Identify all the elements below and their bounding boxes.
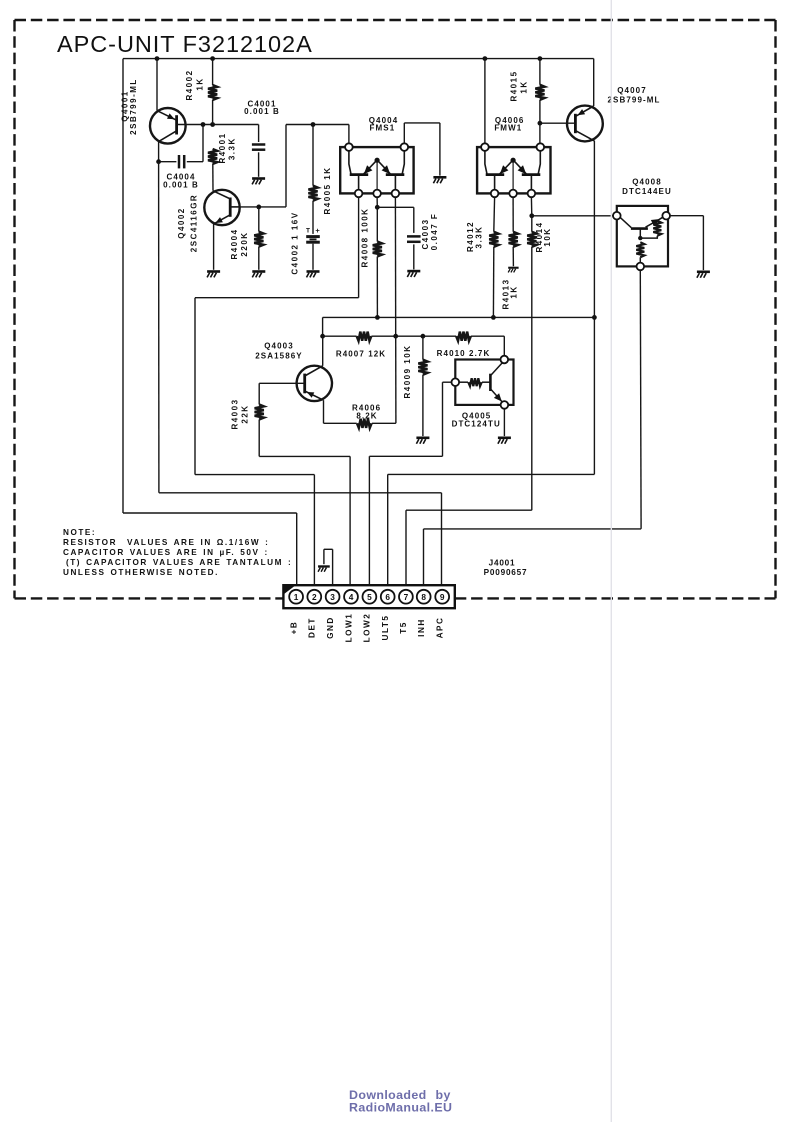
- svg-text:10K: 10K: [543, 227, 552, 246]
- wire R4006 riser to line B: [395, 336, 397, 423]
- pin top-right FMW1: [537, 143, 545, 151]
- dual transistor right base-emitter bar FMW1: [522, 173, 541, 176]
- wire FMW1 top-left pin riser: [484, 59, 486, 144]
- resistor R4008: [373, 242, 382, 257]
- transistor Q4001 collector lead: [159, 131, 177, 142]
- transistor Q4002 emitter lead: [214, 215, 231, 224]
- wire DET horizontal: [195, 297, 359, 299]
- transistor Q4001 emitter arrow (PNP): [167, 113, 175, 119]
- svg-text:DTC144EU: DTC144EU: [622, 187, 672, 196]
- pin top-left FMW1: [481, 143, 489, 151]
- node R4005 top: [311, 122, 316, 127]
- wire ULT5 vertical: [593, 317, 595, 474]
- wire +B top rail: [123, 58, 594, 60]
- ground Q4002 emitter: [207, 270, 220, 273]
- Q4008 internal R1 top stub: [657, 216, 664, 221]
- wire INH horizontal: [424, 528, 642, 530]
- transistor Q4007 collector lead: [575, 131, 594, 141]
- wire to C4003: [377, 206, 414, 208]
- transistor Q4005 emitter lead: [490, 389, 502, 402]
- wire line B middle: [371, 335, 456, 337]
- svg-text:RESISTOR VALUES ARE IN Ω.1/16: RESISTOR VALUES ARE IN Ω.1/16W :: [63, 538, 269, 547]
- ground Q4005: [498, 437, 511, 440]
- svg-text:7: 7: [404, 592, 409, 602]
- transistor Q4002 circle: [204, 190, 239, 225]
- Q4005 internal input lead: [459, 381, 468, 383]
- svg-text:4: 4: [349, 592, 354, 602]
- connector J4001 box: [283, 585, 454, 608]
- node Q4008 internal: [638, 236, 642, 240]
- dual transistor right base drop FMS1: [394, 175, 396, 190]
- dashed schematic border (left edge): [13, 20, 15, 598]
- dual transistor left emitter arrow FMS1: [364, 165, 373, 174]
- digital transistor Q4008 box: [617, 206, 668, 267]
- wire Q4008 output drop: [639, 270, 642, 529]
- dual transistor Q4006 FMW1 box: [477, 147, 550, 193]
- svg-text:T5: T5: [399, 621, 408, 634]
- wire R4015 bottom: [539, 100, 541, 144]
- transistor Q4008 base bar: [631, 227, 648, 230]
- svg-text:+: +: [315, 226, 320, 235]
- svg-text:FMW1: FMW1: [494, 124, 522, 133]
- wire Q4007 collector drop: [593, 141, 595, 318]
- node collector-R4004: [256, 205, 261, 210]
- pin 6 circle: [381, 590, 395, 604]
- svg-text:1: 1: [294, 592, 299, 602]
- dual transistor apex to middle pin FMW1: [512, 160, 514, 189]
- wire Q4005 emitter to ground: [503, 409, 505, 436]
- dual transistor right emitter arrow FMW1: [518, 165, 527, 174]
- svg-text:8: 8: [421, 592, 426, 602]
- dual transistor left emitter lead FMS1: [363, 161, 376, 174]
- pin bottom-left FMW1: [491, 190, 499, 198]
- svg-text:0.001 B: 0.001 B: [244, 107, 280, 116]
- pin Q4005 bottom-right: [501, 401, 509, 409]
- wire R4003 top: [258, 383, 260, 404]
- svg-text:2SC4116GR: 2SC4116GR: [189, 194, 198, 252]
- svg-text:3: 3: [330, 592, 335, 602]
- transistor Q4007 emitter lead: [575, 106, 593, 116]
- wire C4003 top lead: [413, 207, 415, 233]
- svg-text:C4003: C4003: [421, 218, 430, 249]
- pin 4 circle: [344, 590, 358, 604]
- resistor R4015: [535, 85, 544, 100]
- dashed schematic border (bottom edge, interrupted by connector): [15, 597, 284, 599]
- svg-text:R4015: R4015: [510, 70, 519, 101]
- svg-text:2SA1586Y: 2SA1586Y: [255, 352, 303, 361]
- svg-text:2SB799-ML: 2SB799-ML: [607, 96, 660, 105]
- wire Q4008 input line: [532, 215, 613, 217]
- ground R4004: [252, 270, 265, 273]
- wire pin2 riser: [313, 475, 315, 590]
- transistor Q4002 emitter arrow (NPN): [215, 217, 223, 223]
- wire LOW1 horizontal: [259, 455, 350, 457]
- dashed schematic border (right edge): [774, 20, 776, 598]
- wire ULT5 horizontal: [388, 473, 595, 475]
- transistor Q4003 collector lead: [305, 366, 323, 376]
- Q4005 internal base wire: [482, 381, 490, 383]
- svg-text:220K: 220K: [240, 231, 249, 256]
- dual transistor left base-emitter bar FMW1: [486, 173, 505, 176]
- node lineA-Q4007 collector: [592, 315, 597, 320]
- svg-text:R4003: R4003: [231, 398, 240, 429]
- svg-text:DET: DET: [308, 617, 317, 638]
- transistor Q4005 base bar: [489, 374, 492, 391]
- wire line B right: [471, 335, 505, 337]
- wire R4009 bottom: [422, 375, 424, 436]
- svg-text:0.047 F: 0.047 F: [430, 213, 439, 251]
- resistor R4004: [254, 232, 263, 247]
- wire R4006 left: [324, 422, 357, 424]
- Q4008 internal resistor R1: [653, 221, 661, 236]
- transistor Q4005 collector lead: [490, 363, 502, 376]
- svg-text:APC: APC: [436, 617, 445, 639]
- svg-text:Q4007: Q4007: [617, 86, 647, 95]
- resistor R4001: [208, 149, 217, 164]
- wire LOW2 horizontal: [369, 455, 442, 457]
- svg-text:R4007 12K: R4007 12K: [336, 350, 386, 359]
- wire Q4001 base line: [177, 124, 259, 126]
- wire C4004 left lead: [159, 161, 177, 163]
- ground C4003: [407, 270, 420, 273]
- wire Q4007 emitter riser: [593, 59, 595, 106]
- wire R4008 top: [376, 207, 378, 241]
- node lineB start: [320, 334, 325, 339]
- transistor Q4002 base bar: [229, 198, 232, 217]
- svg-text:R4001: R4001: [218, 132, 227, 163]
- wire R4008 bottom: [376, 257, 378, 318]
- transistor Q4002 base lead: [213, 191, 229, 199]
- wire pin5 riser: [368, 456, 370, 589]
- ground R4009: [416, 437, 429, 440]
- svg-text:R4009 10K: R4009 10K: [403, 345, 412, 399]
- pin 1 circle: [289, 590, 303, 604]
- svg-text:UNLESS OTHERWISE NOTED.: UNLESS OTHERWISE NOTED.: [63, 568, 219, 577]
- ground C4002: [307, 270, 320, 273]
- svg-text:LOW1: LOW1: [344, 613, 353, 643]
- wire R4002 top: [212, 59, 214, 85]
- wire R4014 to T5: [531, 247, 533, 510]
- svg-text:1K: 1K: [510, 285, 519, 298]
- capacitor C4004: [178, 155, 181, 168]
- pin 9 circle: [435, 590, 449, 604]
- svg-text:R4008 100K: R4008 100K: [361, 208, 370, 268]
- resistor R4012: [489, 232, 498, 247]
- wire C4003 bottom lead: [413, 244, 415, 269]
- dual transistor left emitter lead FMW1: [499, 161, 512, 174]
- node C4004-collector: [156, 159, 161, 164]
- svg-text:DTC124TU: DTC124TU: [452, 419, 501, 428]
- Q4008 internal wire R1 to node: [640, 236, 657, 238]
- svg-text:+B: +B: [289, 621, 298, 635]
- capacitor C4003: [407, 235, 421, 238]
- Q4008 internal bar drop: [639, 229, 641, 239]
- dual transistor emitter apex node FMS1: [375, 158, 380, 163]
- wire R4005 top: [312, 125, 314, 186]
- pin bottom-right FMW1: [528, 190, 536, 198]
- svg-text:1K: 1K: [520, 80, 529, 93]
- transistor Q4008 emitter arrow: [651, 219, 660, 226]
- wire left +B drop: [122, 59, 124, 513]
- transistor Q4003 emitter lead: [305, 391, 324, 400]
- Q4008 internal resistor R2: [636, 242, 644, 257]
- svg-text:LOW2: LOW2: [363, 613, 372, 643]
- svg-text:APC-UNIT F3212102A: APC-UNIT F3212102A: [57, 31, 313, 57]
- Q4005 internal base resistor: [468, 378, 481, 386]
- wire Q4003 base lead: [259, 382, 305, 384]
- wire R4012 top: [493, 197, 496, 232]
- wire R4002 bottom: [212, 100, 214, 125]
- wire Q4003 emitter drop: [323, 400, 325, 423]
- wire R4006 right: [372, 422, 396, 424]
- transistor Q4001 circle: [150, 108, 186, 144]
- wire APC horizontal: [159, 492, 442, 494]
- wire Q4008 emitter right: [670, 215, 703, 217]
- node base-R4002-R4001: [210, 122, 215, 127]
- svg-text:0.001 B: 0.001 B: [163, 181, 199, 190]
- resistor R4007: [357, 332, 372, 341]
- svg-text:C4002 1 16V: C4002 1 16V: [291, 211, 300, 274]
- wire DET to pin2: [195, 474, 314, 476]
- connector J4001 corner wedge: [283, 585, 295, 594]
- svg-text:Q4003: Q4003: [264, 341, 294, 350]
- svg-text:Q4001: Q4001: [120, 90, 129, 122]
- pin bottom-right FMS1: [392, 190, 400, 198]
- svg-text:9: 9: [440, 592, 445, 602]
- resistor R4006: [357, 419, 372, 428]
- ground FMS1 top-right: [433, 176, 446, 179]
- digital transistor Q4005 box: [455, 360, 513, 405]
- resistor R4010: [456, 332, 471, 341]
- svg-text:3.3K: 3.3K: [475, 226, 484, 249]
- node lineB-R4006: [393, 334, 398, 339]
- pin Q4005 top-right: [501, 356, 509, 364]
- pin 8 circle: [417, 590, 431, 604]
- svg-text:R4010 2.7K: R4010 2.7K: [437, 349, 491, 358]
- transistor Q4001 emitter lead: [157, 111, 175, 120]
- wire R4013 top: [512, 197, 514, 232]
- wire R4015 top: [539, 59, 541, 85]
- wire Q4002 emitter to ground: [213, 224, 215, 270]
- wire FMS1 top-left pin riser: [348, 125, 350, 144]
- wire pin3 jog: [324, 548, 333, 550]
- svg-text:FMS1: FMS1: [370, 124, 396, 133]
- pin Q4008 bottom: [637, 263, 645, 271]
- node rail-R4002: [210, 56, 215, 61]
- pin Q4008 right: [662, 212, 670, 220]
- wire pin1 riser: [296, 513, 298, 590]
- ground pin3 GND: [318, 565, 330, 567]
- pin 5 circle: [363, 590, 377, 604]
- svg-text:2SB799-ML: 2SB799-ML: [129, 78, 138, 135]
- wire C4004 right riser: [202, 125, 204, 162]
- dual transistor right emitter lead FMS1: [378, 161, 391, 174]
- resistor R4003: [255, 405, 264, 420]
- svg-text:GND: GND: [326, 616, 335, 639]
- wire R4004 top: [258, 207, 260, 232]
- wire riser to base net: [285, 125, 287, 207]
- svg-text:8.2K: 8.2K: [356, 412, 377, 421]
- svg-text:INH: INH: [417, 618, 426, 637]
- pin bottom-left FMS1: [355, 190, 363, 198]
- wire DET left drop: [194, 298, 196, 475]
- ground Q4008 emitter: [697, 271, 710, 274]
- svg-text:P0090657: P0090657: [484, 568, 528, 577]
- transistor Q4003 base bar: [303, 374, 306, 394]
- node rail-R4015: [538, 56, 543, 61]
- node lineA-R4008: [375, 315, 380, 320]
- wire C4001 bottom lead: [258, 152, 260, 177]
- svg-text:ULT5: ULT5: [381, 615, 390, 641]
- node lineA-R4012: [491, 315, 496, 320]
- wire FMS1 BL pin drop: [358, 197, 360, 298]
- wire FMS1 topright drop: [439, 123, 441, 176]
- wire line A drop to line B: [322, 317, 324, 336]
- svg-text:RadioManual.EU: RadioManual.EU: [349, 1101, 452, 1115]
- pin Q4008 left: [613, 212, 621, 220]
- pin 3 circle: [326, 590, 340, 604]
- faint scan fold line: [610, 0, 612, 1122]
- capacitor C4002 plates: [306, 235, 320, 238]
- svg-text:2: 2: [312, 592, 317, 602]
- wire line B drop to Q4005: [503, 336, 505, 356]
- resistor R4009: [418, 360, 427, 375]
- wire R4014 top: [530, 197, 532, 216]
- dual transistor right collector lead FMS1: [402, 151, 404, 175]
- svg-text:R4004: R4004: [230, 228, 239, 259]
- node base-C4004: [201, 122, 206, 127]
- transistor Q4003 circle: [297, 366, 332, 401]
- Q4008 internal wire R2 to pin: [639, 257, 641, 262]
- wire R4009 top: [422, 336, 424, 360]
- pin bottom-middle FMW1: [509, 190, 517, 198]
- dual transistor left base-emitter bar FMS1: [350, 173, 369, 176]
- ground R4013: [508, 267, 518, 269]
- wire Q4003 collector riser: [322, 336, 324, 366]
- wire R4005 to C4002: [312, 201, 314, 234]
- transistor Q4007 emitter arrow (PNP): [578, 109, 586, 115]
- dual transistor right emitter lead FMW1: [514, 161, 527, 174]
- ground C4001: [252, 177, 265, 180]
- transistor Q4005 emitter arrow (NPN): [494, 393, 502, 401]
- wire C4004 right lead: [187, 161, 203, 163]
- resistor R4005: [308, 186, 317, 201]
- svg-text:J4001: J4001: [489, 559, 516, 568]
- transistor Q4007 base bar: [574, 114, 577, 133]
- wire Q4001 emitter from rail: [156, 59, 158, 111]
- wire bus line A: [323, 316, 595, 318]
- wire R4003 bottom: [258, 420, 260, 457]
- svg-text:Q4002: Q4002: [177, 207, 186, 239]
- dual transistor right base-emitter bar FMS1: [386, 173, 405, 176]
- dual transistor right collector lead FMW1: [538, 151, 540, 175]
- wire APC vertical from C4004 node: [158, 162, 160, 493]
- wire R4004 bottom: [258, 247, 260, 270]
- transistor Q4003 emitter arrow (PNP): [307, 392, 315, 398]
- wire pin3 riser: [332, 549, 334, 589]
- svg-text:1K: 1K: [196, 77, 205, 90]
- resistor R4014: [527, 232, 536, 247]
- dual transistor right base drop FMW1: [530, 175, 532, 190]
- svg-text:3.3K: 3.3K: [227, 137, 236, 160]
- transistor Q4007 circle: [567, 106, 603, 142]
- dual transistor right emitter arrow FMS1: [382, 165, 391, 174]
- wire FMS1 top-right pin up: [403, 123, 405, 143]
- wire base net to FMS1: [286, 124, 349, 126]
- dual transistor emitter apex node FMW1: [510, 158, 515, 163]
- transistor Q4002 collector lead: [230, 206, 240, 208]
- wire Q4007 base lead: [540, 122, 576, 124]
- node lineB-R4009: [421, 334, 426, 339]
- wire line B left: [323, 335, 357, 337]
- dual transistor left emitter arrow FMW1: [500, 165, 509, 174]
- node R4008-C4003: [375, 205, 380, 210]
- svg-text:R4005 1K: R4005 1K: [323, 166, 332, 214]
- svg-text:(T) CAPACITOR VALUES ARE TANTA: (T) CAPACITOR VALUES ARE TANTALUM :: [66, 558, 292, 567]
- node R4014-Q4008: [529, 213, 534, 218]
- wire FMS1 topright horizontal: [404, 122, 440, 124]
- node rail-Q4001 emitter: [155, 56, 160, 61]
- wire T5 horizontal: [406, 509, 532, 511]
- node rail-FMW1: [483, 56, 488, 61]
- wire FMS1 BR pin drop: [394, 197, 396, 336]
- dual transistor left collector lead FMW1: [485, 151, 487, 175]
- wire C4001 top lead: [258, 125, 260, 143]
- transistor Q4001 base bar: [175, 115, 178, 134]
- resistor R4013: [509, 232, 518, 247]
- dual transistor left base drop FMW1: [494, 175, 496, 190]
- svg-text:Q4008: Q4008: [632, 178, 662, 187]
- pin top-left FMS1: [345, 143, 353, 151]
- wire Q4008 emitter drop: [702, 216, 704, 270]
- transistor Q4008 emitter lead: [646, 218, 663, 228]
- pin Q4005 left: [452, 378, 460, 386]
- svg-text:T: T: [306, 228, 310, 235]
- dual transistor left base drop FMS1: [358, 175, 360, 190]
- svg-text:R4002: R4002: [185, 69, 194, 100]
- svg-text:5: 5: [367, 592, 372, 602]
- wire Q4001 collector down: [158, 142, 160, 162]
- wire Q4005 input left: [443, 381, 452, 383]
- capacitor C4001: [252, 143, 265, 146]
- wire pin8 riser: [423, 529, 425, 590]
- wire C4002 bottom: [312, 244, 314, 270]
- pin 7 circle: [399, 590, 413, 604]
- wire pin3 ground drop: [323, 549, 325, 564]
- svg-text:CAPACITOR VALUES ARE IN µF. 50: CAPACITOR VALUES ARE IN µF. 50V :: [63, 548, 269, 557]
- dual transistor left collector lead FMS1: [349, 151, 351, 175]
- wire R4014 upper: [531, 216, 533, 232]
- dashed schematic border (top edge): [15, 19, 776, 21]
- wire pin6 riser: [387, 474, 389, 589]
- wire Q4002 collector line: [241, 206, 286, 208]
- node R4015-Q4007 base: [538, 121, 543, 126]
- Q4008 internal input lead: [620, 218, 631, 228]
- wire pin9 riser: [441, 493, 443, 590]
- svg-text:NOTE:: NOTE:: [63, 528, 96, 537]
- pin top-right FMS1: [401, 143, 409, 151]
- wire pin4 riser: [349, 456, 351, 589]
- wire LOW2 drop: [442, 382, 444, 456]
- dual transistor Q4004 FMS1 box: [340, 147, 413, 193]
- pin bottom-middle FMS1: [373, 190, 381, 198]
- wire FMS1 BM pin drop: [376, 197, 378, 207]
- wire R4012 bottom: [492, 247, 494, 318]
- pin 2 circle: [307, 590, 321, 604]
- wire pin7 riser: [405, 510, 407, 589]
- wire +B to pin1 horizontal: [123, 512, 297, 514]
- wire R4001 bottom to Q4002: [212, 164, 214, 191]
